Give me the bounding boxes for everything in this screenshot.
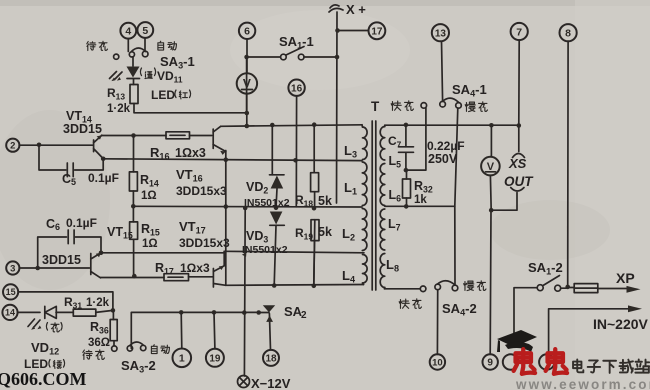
svg-text:SA4-2: SA4-2 <box>442 301 477 318</box>
svg-text:3DD15x3: 3DD15x3 <box>179 236 230 250</box>
svg-text:T: T <box>371 99 380 114</box>
svg-text:3: 3 <box>10 263 15 274</box>
svg-text:3DD15x3: 3DD15x3 <box>176 184 227 198</box>
svg-text:16: 16 <box>291 83 303 94</box>
svg-text:1k: 1k <box>414 194 427 206</box>
svg-text:XP: XP <box>616 270 635 286</box>
svg-text:1·2k: 1·2k <box>107 103 131 115</box>
svg-text:0.1µF: 0.1µF <box>88 171 119 185</box>
svg-text:250V: 250V <box>428 152 458 166</box>
svg-text:SA3-2: SA3-2 <box>121 358 156 375</box>
svg-text:SA: SA <box>284 304 303 319</box>
svg-text:14: 14 <box>5 308 15 318</box>
svg-text:XS: XS <box>508 156 527 171</box>
svg-text:8: 8 <box>565 27 571 39</box>
svg-text:X−12V: X−12V <box>251 376 291 390</box>
svg-text:1·2k: 1·2k <box>86 297 110 309</box>
svg-text:3DD15: 3DD15 <box>42 253 81 267</box>
svg-text:7: 7 <box>516 26 522 38</box>
svg-text:OUT: OUT <box>504 174 534 189</box>
svg-text:5k: 5k <box>318 194 332 208</box>
svg-text:6: 6 <box>244 26 250 38</box>
svg-text:17: 17 <box>371 26 383 37</box>
svg-text:10: 10 <box>432 357 443 368</box>
svg-text:2: 2 <box>10 141 15 152</box>
svg-text:IN5501x2: IN5501x2 <box>244 197 290 209</box>
svg-text:1Ω: 1Ω <box>142 238 158 250</box>
svg-text:www.eeworm.com: www.eeworm.com <box>515 377 650 390</box>
svg-text:18: 18 <box>265 354 277 365</box>
svg-text:C: C <box>46 217 55 231</box>
svg-text:X +: X + <box>346 2 366 17</box>
svg-text:36Ω: 36Ω <box>88 337 110 349</box>
svg-text:5: 5 <box>71 177 76 187</box>
svg-text:1Ω: 1Ω <box>141 190 157 202</box>
svg-text:5k: 5k <box>318 225 332 239</box>
svg-text:13: 13 <box>435 28 447 39</box>
svg-text:0.22µF: 0.22µF <box>427 139 465 153</box>
svg-text:LED: LED <box>151 88 175 102</box>
svg-text:15: 15 <box>6 287 16 297</box>
svg-text:V: V <box>243 77 251 91</box>
svg-text:4: 4 <box>125 25 131 37</box>
svg-text:1Ωx3: 1Ωx3 <box>180 261 210 275</box>
svg-text:2: 2 <box>301 310 307 321</box>
svg-text:SA4-1: SA4-1 <box>452 82 487 99</box>
svg-text:SA1-2: SA1-2 <box>528 260 563 277</box>
svg-text:3DD15: 3DD15 <box>63 122 102 136</box>
svg-text:IN~220V: IN~220V <box>593 316 649 332</box>
svg-text:6: 6 <box>55 222 60 232</box>
svg-text:9: 9 <box>487 358 493 369</box>
svg-text:5: 5 <box>142 25 148 37</box>
svg-text:C: C <box>62 172 71 186</box>
svg-text:1Ωx3: 1Ωx3 <box>175 146 206 160</box>
svg-text:1: 1 <box>179 353 185 365</box>
svg-text:Q606.COM: Q606.COM <box>0 369 87 389</box>
svg-text:SA1-1: SA1-1 <box>279 34 314 51</box>
svg-text:IN5501x2: IN5501x2 <box>242 244 288 256</box>
svg-text:19: 19 <box>209 353 221 364</box>
svg-text:0.1µF: 0.1µF <box>66 216 97 230</box>
